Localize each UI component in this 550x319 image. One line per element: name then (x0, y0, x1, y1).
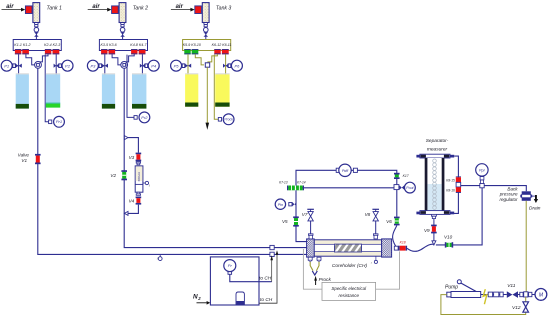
pipe Pr to CH return (230, 274, 272, 281)
svg-text:Pdif: Pdif (342, 169, 349, 173)
label V6 (386, 219, 392, 224)
couplings after pump (488, 292, 503, 297)
svg-text:Pr: Pr (228, 263, 233, 268)
manifold box tank 3 (183, 40, 231, 51)
separator bottom fitting (431, 214, 436, 220)
pipe Pdif left leg down to coreholder inlet (296, 190, 307, 241)
port top right (373, 234, 378, 239)
to CH arrow 2 (276, 250, 279, 255)
pipe K5-9 K5-10 left valve to left burette (187, 54, 189, 74)
pipe Pout leg down through V6 (396, 190, 398, 217)
air feed line tank 2 (88, 8, 112, 12)
svg-text:V6: V6 (386, 219, 392, 224)
pipe K3-5 K3-6 right valve to junction (112, 54, 121, 65)
svg-text:V9: V9 (424, 228, 430, 233)
left burette tank 1 (16, 73, 29, 108)
air regulator block tank 2 (112, 6, 119, 14)
pipe K2-4 K2-3 right valve to right burette (55, 54, 57, 74)
left burette tank 2 (102, 73, 115, 108)
solenoid valve pair K1-1 K1-2 (15, 49, 29, 54)
fitting K18 (398, 246, 407, 251)
hose V6 to K18 port (393, 225, 397, 246)
coreholder left cap (307, 239, 315, 257)
label V5 (282, 219, 288, 224)
solenoid valve pair K4-8 K4-7 (131, 49, 145, 54)
solenoid valve pair K5-9 K5-10 (184, 49, 198, 54)
pressure gauge P6 (223, 60, 242, 71)
pipe tank1 outlet to lower feed line (38, 68, 307, 254)
svg-text:Pout: Pout (406, 186, 414, 190)
svg-text:f: f (371, 261, 373, 265)
fittings K8-15 K8-16 (456, 176, 461, 193)
pipe K6-12 K6-11 left valve to junction (207, 54, 217, 62)
coreholder right cap (382, 239, 392, 257)
solenoid valve pair K6-12 K6-11 (214, 49, 228, 54)
valve V6 (394, 217, 400, 226)
svg-text:K5-9 K5-10: K5-9 K5-10 (183, 43, 201, 47)
tank 3 outlet neck (204, 23, 208, 27)
measuring vessel 500 ml (135, 166, 143, 192)
label to CH 2 (260, 297, 273, 303)
pressure gauge P4 (140, 60, 159, 71)
valve V11 (507, 291, 518, 298)
valve V12 (523, 302, 529, 312)
resistance wire right (376, 251, 400, 289)
svg-text:air: air (92, 4, 100, 10)
fitting on upper feed line (270, 245, 274, 249)
svg-text:K2-4 K2-3: K2-4 K2-3 (44, 43, 60, 47)
N2 label (193, 294, 201, 302)
air regulator block tank 1 (25, 6, 32, 14)
pipe junction to V9 (433, 220, 435, 241)
label Pump (445, 285, 458, 291)
label Valve V1 (18, 153, 30, 164)
svg-text:to CH: to CH (260, 297, 273, 303)
svg-text:K17: K17 (403, 174, 409, 178)
resistance wire left (303, 249, 322, 289)
connector V3 to vessel (136, 162, 140, 165)
ball valve under tank 2 (120, 28, 125, 37)
tank 2 outlet pipe (122, 27, 124, 40)
svg-text:Ppr: Ppr (479, 169, 486, 173)
svg-text:V4: V4 (129, 199, 135, 204)
svg-text:Coreholder (CH): Coreholder (CH) (332, 263, 368, 269)
specific electrical resistance box (322, 282, 376, 300)
pump plunger (457, 280, 480, 294)
tank 3 outlet pipe (205, 27, 207, 40)
svg-text:to CH: to CH (259, 276, 272, 282)
svg-text:K1-1 K1-2: K1-1 K1-2 (14, 43, 30, 47)
svg-text:K8-16: K8-16 (446, 188, 455, 192)
separator body (425, 158, 445, 211)
N2 pressure box (210, 257, 259, 305)
label V10 (444, 235, 453, 240)
svg-text:K18: K18 (400, 240, 406, 244)
svg-text:resistance: resistance (339, 293, 360, 298)
label V7 (302, 212, 308, 217)
svg-text:V5: V5 (282, 219, 288, 224)
valve K17 (394, 173, 400, 179)
pump body (447, 292, 481, 298)
svg-text:air: air (176, 4, 184, 10)
separator bypass pipe (451, 156, 459, 213)
vessel side port (143, 181, 151, 188)
drain arrow (534, 195, 538, 203)
drain port on lower feed line (157, 254, 162, 261)
svg-text:air: air (6, 4, 14, 10)
svg-text:Tank 1: Tank 1 (47, 5, 62, 11)
core sample (hatched) (334, 244, 361, 252)
junction fitting tank 1 (35, 62, 42, 69)
svg-text:P4: P4 (151, 63, 157, 68)
motor M (535, 289, 547, 301)
svg-text:2: 2 (197, 296, 201, 301)
pipe to gauge Pr1 (45, 55, 48, 122)
tank 1 outlet pipe (35, 27, 37, 40)
svg-text:V11: V11 (507, 283, 516, 289)
pipe K6-12 K6-11 right valve to right burette (225, 54, 227, 74)
pipe K7 line to Pout (287, 187, 394, 189)
ball valve under tank 3 (204, 28, 209, 37)
thermo port under coreholder (374, 256, 377, 263)
valve labels K4-8 K4-7 (130, 43, 147, 47)
gauge Pout (394, 182, 415, 193)
label K8-16 (446, 188, 455, 192)
label back pressure regulator (499, 186, 519, 201)
air feed line tank 3 (171, 8, 195, 12)
svg-text:Specific electrical: Specific electrical (331, 286, 367, 291)
tank 1 outlet neck (34, 23, 38, 27)
svg-text:V1: V1 (21, 158, 27, 163)
valve V4 (136, 197, 142, 205)
solenoid valve pair K2-4 K2-3 (45, 49, 59, 54)
to CH line 1 (270, 255, 273, 282)
pipe V4 to branch (128, 205, 138, 214)
label K7-14 (297, 180, 306, 184)
pipe bpr down to pump line (525, 201, 527, 292)
svg-text:Pr1: Pr1 (56, 119, 62, 124)
gauge Pr (224, 260, 236, 275)
pipe K8 tee to bpr (461, 186, 527, 192)
junction fitting tank 3 (205, 63, 209, 67)
air supply label tank 2 (92, 4, 100, 10)
pressure gauge P2 (54, 60, 73, 71)
label V11 (507, 283, 516, 289)
left burette tank 3 (185, 73, 198, 106)
branch fitting lower (from V4) (124, 211, 128, 215)
pressure gauge P3 (87, 60, 108, 71)
svg-text:500 ml: 500 ml (137, 172, 141, 182)
valve V10 (445, 242, 453, 247)
air feed line tank 1 (2, 8, 26, 12)
valve labels K5-9 K5-10 (183, 43, 201, 47)
valve pair K7-13 K7-14 (287, 186, 304, 191)
tank 1 vessel (33, 3, 40, 23)
svg-text:V2: V2 (110, 173, 116, 178)
N2 inlet arrow (197, 301, 211, 305)
separator bottom flange (416, 211, 454, 215)
tank 3 vessel (202, 3, 209, 23)
svg-text:K3-5 K3-6: K3-5 K3-6 (101, 43, 117, 47)
label Coreholder (CH) (332, 261, 373, 269)
pipe Pdif loop (296, 170, 397, 188)
coreholder body (314, 240, 381, 256)
funnel to Prock sensor (310, 262, 319, 275)
svg-text:Tank 2: Tank 2 (133, 5, 148, 11)
pipe to gauge Prock (214, 55, 218, 120)
svg-text:Pump: Pump (445, 285, 458, 291)
pipe pump suction loop (441, 295, 526, 315)
branch fitting V9/V10 (432, 241, 436, 245)
svg-text:P6: P6 (234, 63, 240, 68)
valve V9 (431, 225, 437, 234)
connector vessel to V4 (136, 192, 140, 195)
svg-text:Drain: Drain (529, 205, 541, 211)
svg-text:K6-12 K6-11: K6-12 K6-11 (212, 43, 232, 47)
valve V1 (35, 154, 41, 164)
svg-text:Separator-: Separator- (426, 138, 449, 144)
valve labels K1-1 K1-2 (14, 43, 30, 47)
N2 bottle in box (236, 292, 244, 305)
pipe K5-9 K5-10 right valve to junction (195, 54, 204, 65)
tank 3 label (216, 5, 231, 11)
label Drain (529, 205, 541, 211)
junction fitting tank 2 (121, 62, 128, 69)
svg-text:K4-8 K4-7: K4-8 K4-7 (130, 43, 147, 47)
label to CH 1 (259, 276, 272, 282)
valve V2 (121, 170, 127, 180)
pipe K4-8 K4-7 right valve to right burette (141, 54, 143, 74)
svg-text:Pr2: Pr2 (141, 115, 148, 120)
right burette tank 1 (46, 73, 60, 107)
pipe K4-8 K4-7 left valve to junction (124, 54, 134, 62)
port bottom left 1 (308, 257, 312, 261)
branch fitting upper (to V3) (124, 136, 128, 140)
svg-text:P1: P1 (4, 63, 9, 68)
label V3 (129, 155, 135, 160)
solenoid valve pair K3-5 K3-6 (101, 49, 115, 54)
manifold box tank 1 (13, 40, 61, 51)
gauge Pin (275, 199, 296, 209)
valve labels K3-5 K3-6 (101, 43, 117, 47)
right burette tank 3 (215, 73, 229, 106)
tank 2 outlet neck (120, 23, 124, 27)
svg-text:P2: P2 (65, 63, 71, 68)
svg-text:Valve: Valve (18, 153, 30, 158)
gauge Pr1 (49, 116, 65, 127)
pipe junction to V10 to Ppr (436, 188, 482, 245)
svg-text:V12: V12 (512, 305, 521, 311)
tank 2 vessel (119, 3, 126, 23)
tank 2 label (133, 5, 148, 11)
svg-text:Prock: Prock (224, 118, 233, 122)
couplings before motor (520, 292, 532, 297)
pipe N2 box to CH (259, 252, 277, 303)
svg-text:V8: V8 (365, 212, 371, 217)
svg-text:Pin: Pin (278, 203, 283, 207)
manifold box tank 2 (99, 40, 147, 51)
gauge Pr2 (134, 112, 150, 123)
pipe K3-5 K3-6 left valve to left burette (104, 54, 106, 74)
svg-text:K8-15: K8-15 (446, 179, 455, 183)
svg-text:measurer: measurer (427, 146, 448, 152)
Prock arrow (314, 276, 317, 285)
right burette tank 2 (132, 73, 146, 108)
gauge Pdif (336, 164, 357, 176)
label V8 (365, 212, 371, 217)
label K8-15 (446, 179, 455, 183)
pipe K2-4 K2-3 left valve to junction (38, 54, 48, 62)
valve V5 (293, 216, 299, 226)
air supply label tank 1 (6, 4, 14, 10)
pipe to gauge Pr2 (127, 55, 134, 118)
pipe K1-1 K1-2 right valve to junction (26, 54, 35, 65)
valve V7 (needle) (307, 209, 314, 234)
pressure gauge P5 (171, 60, 192, 71)
svg-text:P3: P3 (90, 63, 96, 68)
port before K18 (394, 246, 398, 250)
pipe branch to V3 (128, 138, 138, 153)
port top left cap (308, 234, 313, 239)
tank3 vent pipe (206, 67, 208, 123)
svg-text:V10: V10 (444, 235, 453, 240)
back pressure regulator (520, 191, 532, 201)
drain stub (531, 195, 535, 197)
label V4 (129, 199, 135, 204)
label K18 (400, 240, 406, 244)
valve V8 (needle) (372, 209, 379, 234)
svg-text:K7-14: K7-14 (297, 180, 306, 184)
label Prock (319, 277, 332, 283)
svg-text:P5: P5 (174, 63, 180, 68)
label V9 (424, 228, 430, 233)
separator label (426, 138, 449, 153)
label K7-13 (279, 180, 288, 184)
vent arrow (206, 123, 210, 130)
pipe K1-1 K1-2 left valve to left burette (18, 54, 20, 74)
separator top flange (416, 154, 454, 158)
pipe tank2 outlet to upper feed line (124, 68, 307, 247)
fitting on lower feed line (270, 252, 274, 256)
air regulator block tank 3 (195, 6, 202, 14)
gauge Prock (218, 114, 234, 125)
svg-text:Tank 3: Tank 3 (216, 5, 231, 11)
hose K18 to junction (407, 244, 434, 251)
air supply label tank 3 (176, 4, 184, 10)
svg-text:regulator: regulator (499, 197, 518, 202)
label K17 (403, 174, 409, 178)
power bolt (483, 289, 487, 304)
label V2 (110, 173, 116, 178)
tank 1 label (47, 5, 62, 11)
gauge Ppr (476, 164, 488, 188)
svg-text:V7: V7 (302, 212, 308, 217)
pressure gauge P1 (1, 60, 22, 71)
svg-text:K7-13: K7-13 (279, 180, 288, 184)
svg-text:M: M (539, 292, 544, 298)
label V12 (512, 305, 521, 311)
valve V3 (136, 153, 142, 162)
pipe pump discharge (481, 294, 507, 296)
svg-text:f: f (149, 184, 151, 188)
svg-text:V3: V3 (129, 155, 135, 160)
pipe to V12 (525, 297, 527, 302)
ball valve under tank 1 (34, 28, 39, 37)
valve labels K2-4 K2-3 (44, 43, 60, 47)
valve labels K6-12 K6-11 (212, 43, 232, 47)
port bottom left 2 (317, 257, 321, 261)
pipe V11 to motor (518, 294, 535, 296)
